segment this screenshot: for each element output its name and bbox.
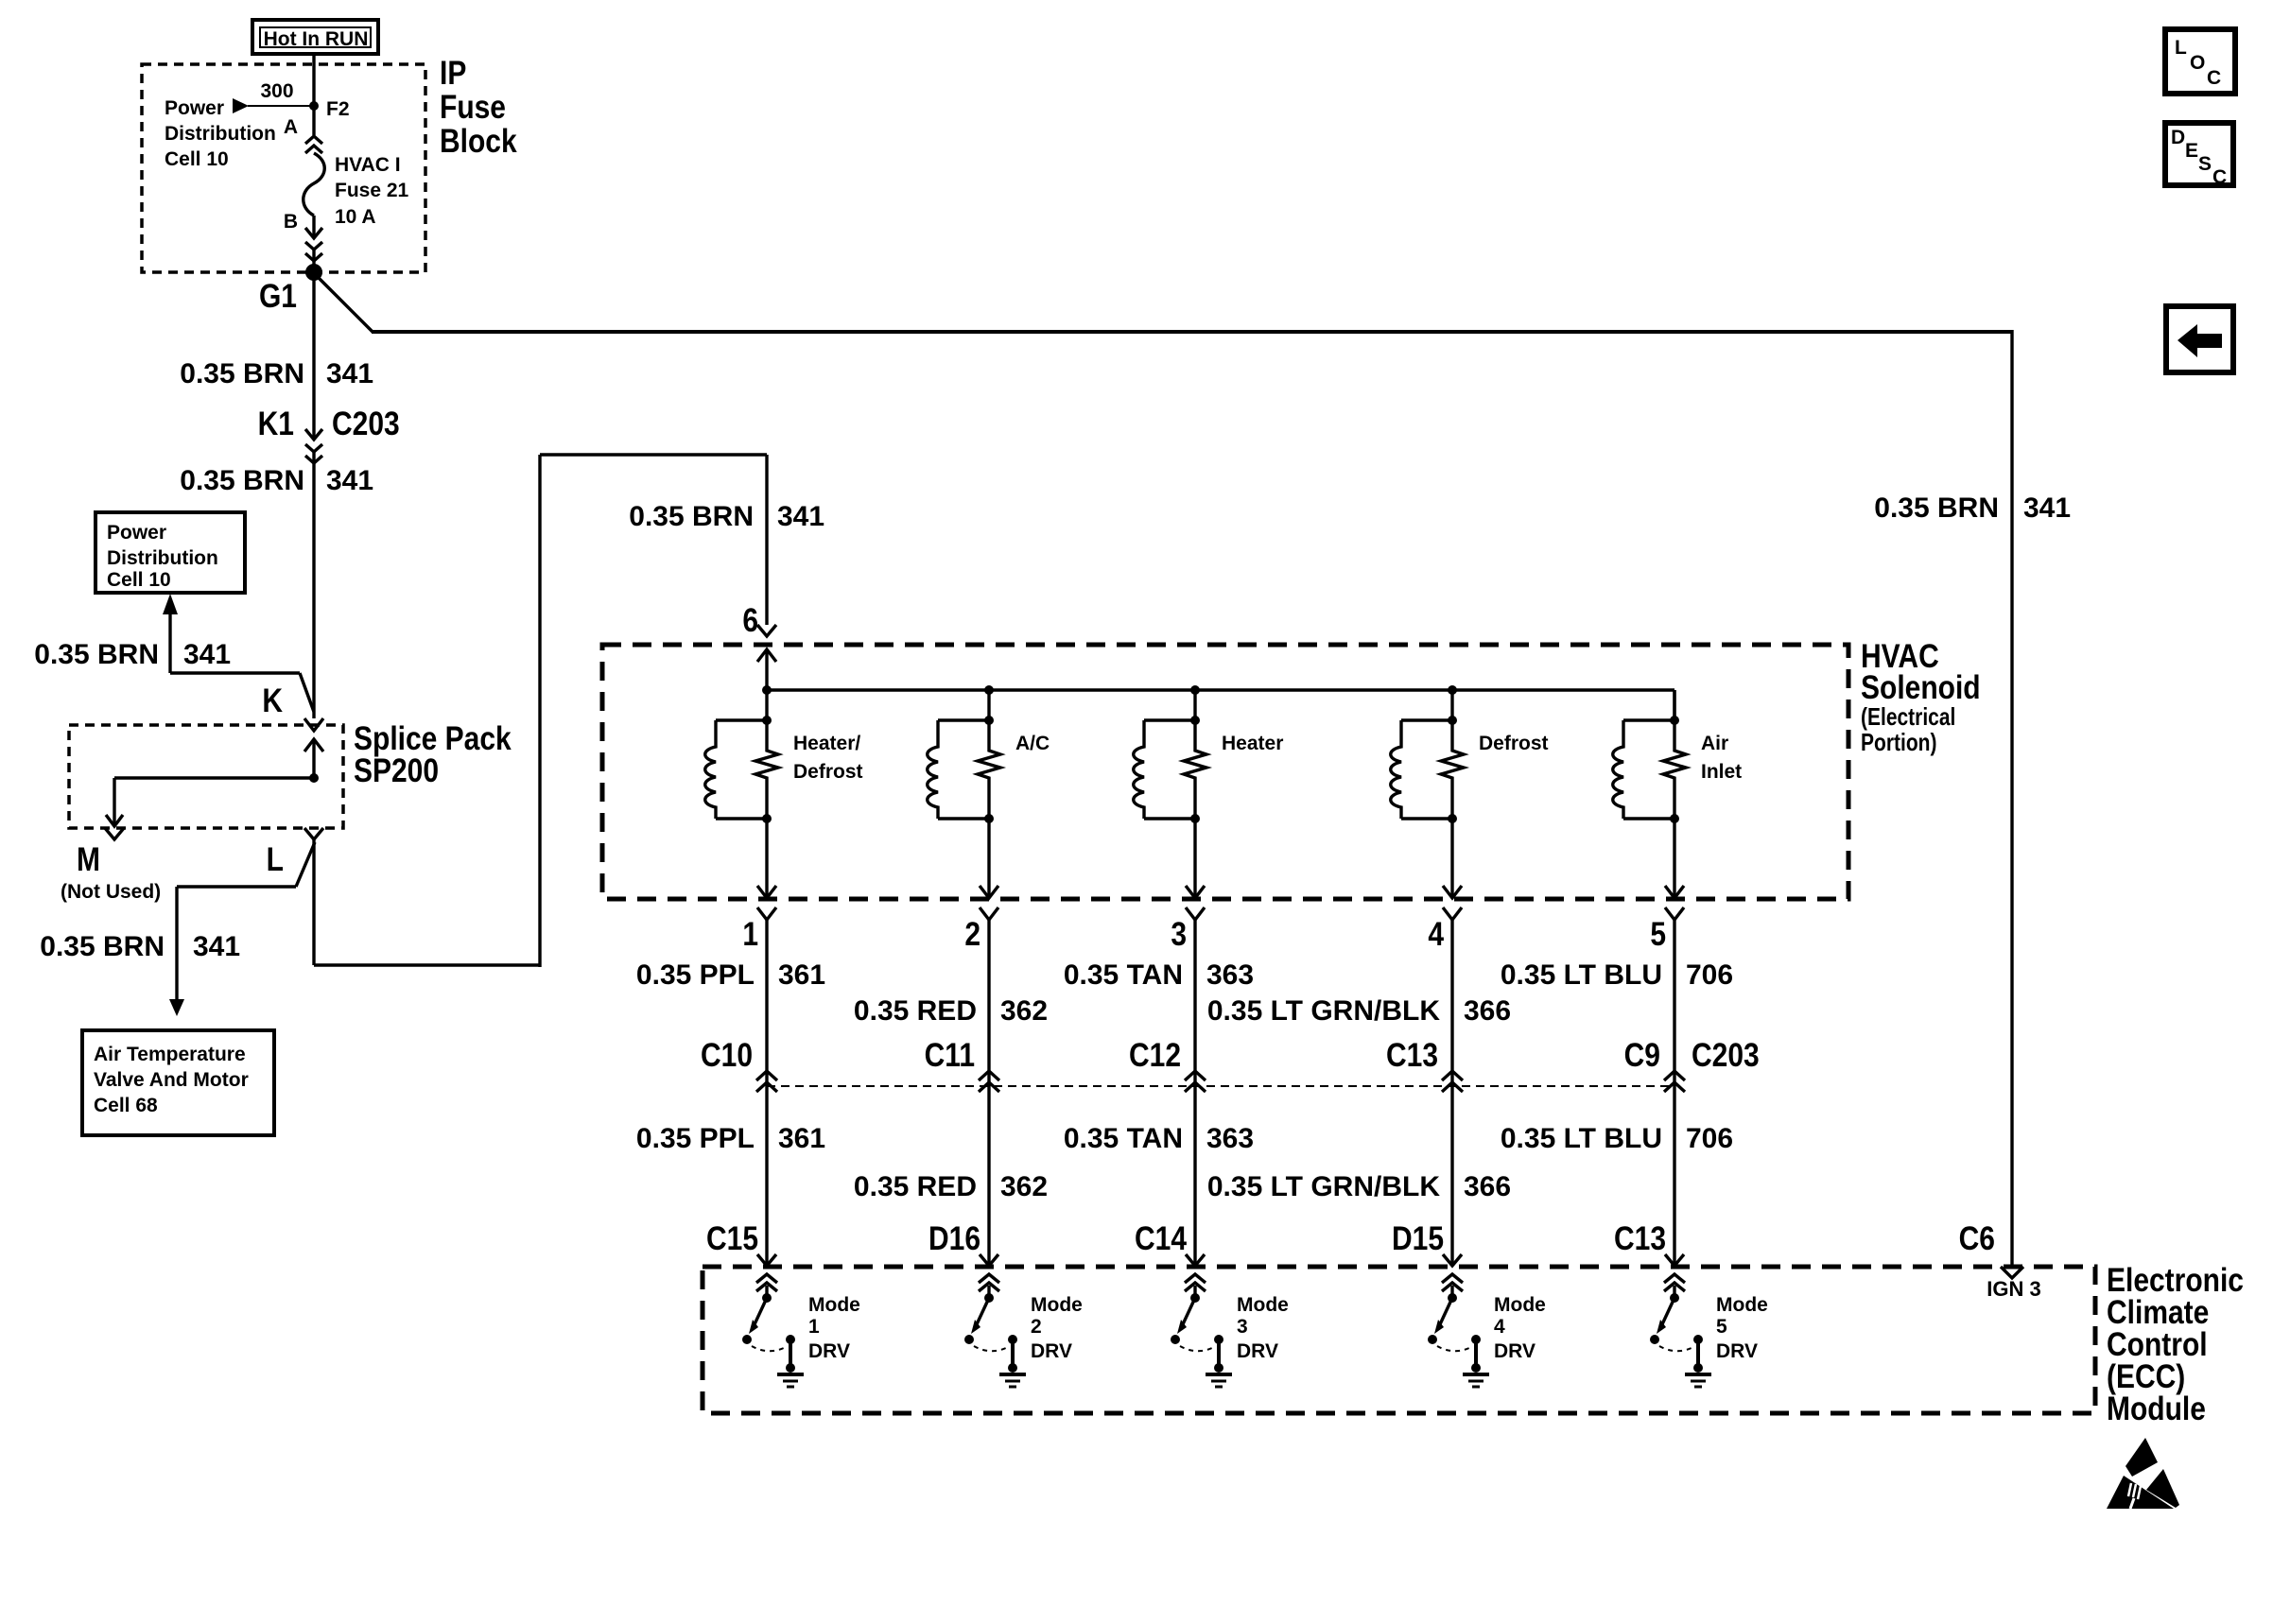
svg-text:Distribution: Distribution [107,547,218,569]
svg-text:HVAC I: HVAC I [335,154,401,176]
svg-text:Hot In RUN: Hot In RUN [264,28,369,50]
svg-text:B: B [284,211,298,233]
svg-text:DRV: DRV [1237,1340,1278,1362]
svg-text:0.35 BRN: 0.35 BRN [1874,492,1999,524]
pin D15 into ECC module [1392,1219,1463,1298]
svg-text:DRV: DRV [1031,1340,1072,1362]
box Air Temperature Valve And Motor Cell 68 [82,1030,274,1135]
svg-text:Defrost: Defrost [1479,733,1549,754]
svg-text:D16: D16 [928,1219,980,1257]
label 0.35 PPL 361 (lower) [636,1123,825,1154]
svg-text:10 A: 10 A [335,206,376,228]
svg-text:0.35 BRN: 0.35 BRN [34,639,159,670]
svg-text:C13: C13 [1614,1219,1666,1257]
svg-text:0.35 PPL: 0.35 PPL [636,1123,755,1154]
pin 6 connector into HVAC solenoid box [742,601,776,690]
svg-text:0.35 TAN: 0.35 TAN [1064,959,1183,991]
pin 5 below HVAC box [1650,907,1684,1265]
svg-text:0.35 LT GRN/BLK: 0.35 LT GRN/BLK [1207,995,1440,1027]
svg-text:341: 341 [193,931,240,962]
HVAC Solenoid dashed box [602,645,1848,899]
svg-text:(Electrical: (Electrical [1861,703,1955,732]
svg-text:C13: C13 [1386,1036,1438,1074]
svg-text:Heater/: Heater/ [793,733,860,754]
svg-text:Mode: Mode [1031,1294,1083,1316]
svg-text:Block: Block [440,122,517,160]
IP Fuse Block dashed box [142,64,425,272]
svg-text:C15: C15 [706,1219,758,1257]
pin C12 at C203 [1129,1036,1206,1092]
label Power Distribution Cell 10 (in fuse block) [165,97,276,170]
svg-text:Cell 68: Cell 68 [94,1095,158,1116]
solenoid 2 A/C [928,690,1050,898]
svg-text:Distribution: Distribution [165,123,276,145]
svg-text:341: 341 [2023,492,2071,524]
solenoid 5 Air Inlet [1613,690,1742,898]
node Hot In RUN flag box [252,20,378,54]
label Electronic Climate Control (ECC) Module [2107,1261,2244,1427]
svg-text:Solenoid: Solenoid [1861,668,1981,706]
label 0.35 TAN 363 (upper) [1064,959,1254,991]
label 0.35 LT GRN/BLK 366 (lower) [1207,1171,1511,1202]
label 0.35 BRN 341 (to air temp valve) [40,931,240,962]
svg-text:D15: D15 [1392,1219,1444,1257]
svg-text:0.35 LT BLU: 0.35 LT BLU [1501,1123,1662,1154]
svg-text:DRV: DRV [1716,1340,1758,1362]
wire C203 to splice pack [312,452,315,718]
back arrow reference box [2166,306,2233,372]
svg-text:Cell 10: Cell 10 [107,569,171,591]
label 0.35 PPL 361 (upper) [636,959,825,991]
svg-text:Mode: Mode [808,1294,860,1316]
svg-text:IP: IP [440,54,466,92]
svg-text:A/C: A/C [1015,733,1050,754]
fuse bottom arrow and connector chevrons [305,216,322,271]
svg-text:Power: Power [107,522,166,544]
label C203 (inline connector) [1692,1036,1760,1074]
node K splice pack input [262,682,323,731]
svg-text:C12: C12 [1129,1036,1181,1074]
svg-text:Power: Power [165,97,224,119]
DESC reference box [2165,123,2233,188]
svg-text:341: 341 [326,465,373,496]
svg-text:Fuse: Fuse [440,88,506,126]
solenoid 1 Heater/ Defrost [705,690,863,898]
svg-text:A: A [284,116,298,138]
svg-text:0.35 BRN: 0.35 BRN [629,501,754,532]
svg-text:341: 341 [326,358,373,389]
svg-text:K: K [262,682,283,719]
node M not used [61,828,161,903]
svg-text:300: 300 [260,80,293,102]
svg-text:Mode: Mode [1716,1294,1768,1316]
svg-text:366: 366 [1464,1171,1511,1202]
svg-text:Inlet: Inlet [1701,761,1742,783]
label IP Fuse Block [440,54,517,160]
svg-text:2: 2 [964,915,980,953]
svg-text:F2: F2 [326,98,350,120]
svg-text:Heater: Heater [1222,733,1283,754]
svg-text:E: E [2185,140,2198,162]
wire into splice pack with up arrow [304,739,323,778]
svg-text:C: C [2207,67,2221,89]
label 0.35 LT BLU 706 (lower) [1501,1123,1733,1154]
svg-text:Fuse 21: Fuse 21 [335,180,409,201]
pin B [284,211,298,233]
svg-text:5: 5 [1650,915,1666,953]
svg-text:3: 3 [1171,915,1187,953]
svg-text:DRV: DRV [1494,1340,1536,1362]
svg-text:0.35 BRN: 0.35 BRN [180,465,304,496]
wire top horizontal bus to right side [372,330,2012,334]
svg-text:D: D [2171,127,2185,148]
Splice Pack SP200 dashed box [69,725,343,828]
svg-text:C6: C6 [1959,1219,1995,1257]
wire splice to M leg [106,778,314,826]
svg-text:706: 706 [1686,959,1733,991]
switch Mode 4 DRV with ground [1428,1293,1546,1387]
pin C13 at C203 [1386,1036,1463,1092]
svg-text:0.35 BRN: 0.35 BRN [180,358,304,389]
LOC reference box [2165,29,2235,94]
connector C203 inline dashed line [767,1085,1674,1087]
pin D16 into ECC module [928,1219,999,1298]
label 0.35 BRN 341 (solenoid feed) [629,501,824,532]
pin 1 below HVAC box [742,907,776,1265]
switch Mode 1 DRV with ground [742,1293,860,1387]
svg-text:706: 706 [1686,1123,1733,1154]
svg-text:362: 362 [1000,1171,1048,1202]
splice junction dot [309,773,319,783]
pin C10 at C203 [701,1036,777,1092]
svg-text:363: 363 [1206,959,1254,991]
svg-text:0.35 RED: 0.35 RED [854,1171,977,1202]
svg-text:0.35 LT BLU: 0.35 LT BLU [1501,959,1662,991]
pin C14 into ECC module [1135,1219,1206,1298]
wire diagonal from G1 to top bus [314,273,373,332]
svg-text:IGN 3: IGN 3 [1987,1277,2040,1301]
svg-text:Cell 10: Cell 10 [165,148,229,170]
node L splice pack output [267,828,323,878]
svg-text:SP200: SP200 [354,752,439,789]
label 0.35 RED 362 (lower) [854,1171,1048,1202]
svg-text:0.35 BRN: 0.35 BRN [40,931,165,962]
svg-text:0.35 TAN: 0.35 TAN [1064,1123,1183,1154]
node G1 junction [259,264,322,315]
svg-text:0.35 PPL: 0.35 PPL [636,959,755,991]
svg-text:4: 4 [1494,1316,1505,1338]
svg-text:C: C [2212,166,2227,188]
pin C11 at C203 [925,1036,999,1092]
svg-text:1: 1 [808,1316,820,1338]
svg-text:C203: C203 [332,405,400,442]
label 0.35 RED 362 (upper) [854,995,1048,1027]
svg-text:O: O [2190,52,2205,74]
svg-text:341: 341 [183,639,231,670]
label 0.35 BRN 341 (below C203) [180,465,373,496]
label 0.35 TAN 363 (lower) [1064,1123,1254,1154]
svg-text:L: L [267,840,284,878]
svg-text:Valve And Motor: Valve And Motor [94,1069,249,1091]
fuse F21 HVAC I Fuse 21 10A [304,106,409,228]
switch Mode 3 DRV with ground [1171,1293,1289,1387]
label 0.35 BRN 341 (branch to Power Distribution) [34,639,231,670]
svg-text:Air: Air [1701,733,1728,754]
label 0.35 LT GRN/BLK 366 (upper) [1207,995,1511,1027]
wire 300 feed with arrowhead to F2 [233,80,314,113]
svg-text:5: 5 [1716,1316,1727,1338]
svg-text:Module: Module [2107,1390,2206,1427]
svg-text:Mode: Mode [1494,1294,1546,1316]
pin C15 into ECC module [706,1219,777,1298]
solenoid 3 Heater [1134,690,1284,898]
pin C9 at C203 [1624,1036,1685,1092]
svg-text:2: 2 [1031,1316,1042,1338]
svg-text:Mode: Mode [1237,1294,1289,1316]
switch Mode 2 DRV with ground [964,1293,1083,1387]
svg-text:Portion): Portion) [1861,729,1936,757]
label Splice Pack SP200 [354,719,512,789]
pin 2 below HVAC box [964,907,998,1265]
connector K1 C203 [258,405,400,463]
wire G1 to C203 [312,273,315,439]
pin 4 below HVAC box [1428,907,1462,1265]
node F2 [309,98,350,120]
svg-text:0.35 LT GRN/BLK: 0.35 LT GRN/BLK [1207,1171,1440,1202]
svg-text:366: 366 [1464,995,1511,1027]
pin A [284,116,298,138]
pin 3 below HVAC box [1171,907,1205,1265]
label HVAC Solenoid (Electrical Portion) [1861,637,1981,757]
label 0.35 LT BLU 706 (upper) [1501,959,1733,991]
svg-text:1: 1 [742,915,758,953]
solenoid 4 Defrost [1391,690,1549,898]
svg-text:3: 3 [1237,1316,1248,1338]
svg-text:361: 361 [778,959,825,991]
svg-text:(Not Used): (Not Used) [61,881,161,903]
svg-text:L: L [2175,37,2187,59]
svg-text:K1: K1 [258,405,294,442]
wire branch up to Power Distribution box [163,594,314,712]
svg-text:6: 6 [742,601,758,639]
svg-text:341: 341 [777,501,824,532]
svg-text:G1: G1 [259,277,297,315]
pin C13 into ECC module [1614,1219,1685,1298]
svg-text:0.35 RED: 0.35 RED [854,995,977,1027]
svg-text:361: 361 [778,1123,825,1154]
svg-text:C203: C203 [1692,1036,1760,1074]
switch Mode 5 DRV with ground [1650,1293,1768,1387]
svg-text:4: 4 [1428,915,1444,953]
bus junction dots [762,685,1457,695]
svg-text:Air Temperature: Air Temperature [94,1044,246,1065]
solenoid supply bus [767,690,1674,723]
label 0.35 BRN 341 (right IGN feed) [1874,492,2071,524]
svg-text:362: 362 [1000,995,1048,1027]
svg-text:S: S [2198,153,2212,175]
svg-text:Defrost: Defrost [793,761,863,783]
wire right vertical IGN 3 drop [2010,330,2013,1267]
label 0.35 BRN 341 (below G1) [180,358,373,389]
svg-text:C9: C9 [1624,1036,1660,1074]
svg-text:C11: C11 [925,1036,975,1074]
wire from Hot In RUN into fuse block [312,54,315,106]
svg-text:DRV: DRV [808,1340,850,1362]
pin C6 IGN 3 into ECC module [1959,1219,2041,1301]
svg-text:C10: C10 [701,1036,753,1074]
box Power Distribution Cell 10 [95,512,245,593]
wire L to air temperature valve [169,842,315,1016]
svg-text:M: M [77,840,100,878]
svg-text:363: 363 [1206,1123,1254,1154]
Electronic Climate Control ECC Module dashed box [703,1267,2095,1413]
wire L down and over to solenoid feed [314,455,767,967]
ESD sensitive device symbol [2107,1438,2179,1509]
svg-text:C14: C14 [1135,1219,1188,1257]
